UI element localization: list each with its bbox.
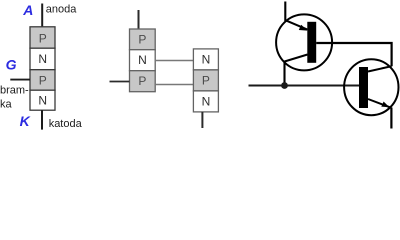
svg-text:N: N: [38, 52, 47, 66]
PNP stack: N layer (base): [130, 50, 156, 71]
svg-text:K: K: [20, 113, 31, 129]
svg-text:P: P: [138, 33, 146, 47]
Q1 base wire right and down: [316, 43, 391, 66]
gate wire to Q2 base: [249, 85, 360, 87]
NPN stack: P layer (base): [193, 70, 218, 91]
svg-text:katoda: katoda: [49, 118, 83, 130]
wire N-N between stacks: [156, 60, 194, 62]
Q1 collector diagonal: [285, 55, 308, 62]
transistor Q2 (NPN) circle: [344, 59, 398, 115]
thyristor PNPN stack: P2 layer: [30, 70, 55, 91]
anode wire: [41, 4, 43, 28]
transistor Q1 base bar: [307, 22, 316, 63]
svg-text:N: N: [202, 53, 211, 67]
thyristor PNPN stack: N1 layer: [30, 48, 55, 69]
NPN stack: N layer (collector): [193, 49, 218, 70]
thyristor PNPN stack: P1 layer: [30, 27, 55, 48]
PNP stack: P layer (emitter): [130, 29, 156, 50]
NPN stack: N layer (emitter): [193, 91, 218, 112]
PNP stack: P layer (collector, gate side): [130, 71, 156, 92]
svg-text:N: N: [202, 95, 211, 109]
svg-text:N: N: [138, 53, 147, 67]
Q1 emitter diagonal: [285, 20, 307, 29]
gate wire: [10, 79, 30, 81]
NPN stack cathode wire: [201, 112, 203, 128]
thyristor PNPN stack: N2 layer: [30, 90, 55, 110]
PNP stack gate wire: [110, 81, 130, 83]
junction node dot: [281, 82, 288, 89]
svg-text:bram-: bram-: [0, 85, 29, 97]
Q1 emitter wire (from anode): [284, 2, 286, 22]
svg-text:P: P: [39, 73, 47, 87]
svg-text:ka: ka: [0, 99, 13, 111]
wire P-P between stacks: [156, 84, 194, 86]
svg-text:N: N: [38, 94, 47, 108]
svg-text:G: G: [6, 56, 17, 72]
svg-text:A: A: [22, 2, 33, 18]
svg-text:P: P: [39, 31, 47, 45]
svg-text:anoda: anoda: [46, 3, 77, 15]
Q2 collector diagonal: [368, 66, 392, 71]
svg-text:P: P: [138, 74, 146, 88]
cathode wire: [41, 110, 43, 129]
Q1 collector wire down to junction: [283, 61, 285, 86]
Q2 emitter arrow away from base: [381, 102, 389, 108]
Q1 emitter arrow into base: [299, 25, 308, 31]
Q2 emitter wire down (cathode): [390, 108, 392, 129]
PNP stack anode wire: [138, 10, 140, 29]
svg-text:P: P: [202, 74, 210, 88]
Q2 emitter diagonal: [368, 99, 391, 108]
transistor Q1 (PNP) circle: [276, 14, 332, 70]
transistor Q2 base bar: [359, 67, 368, 108]
